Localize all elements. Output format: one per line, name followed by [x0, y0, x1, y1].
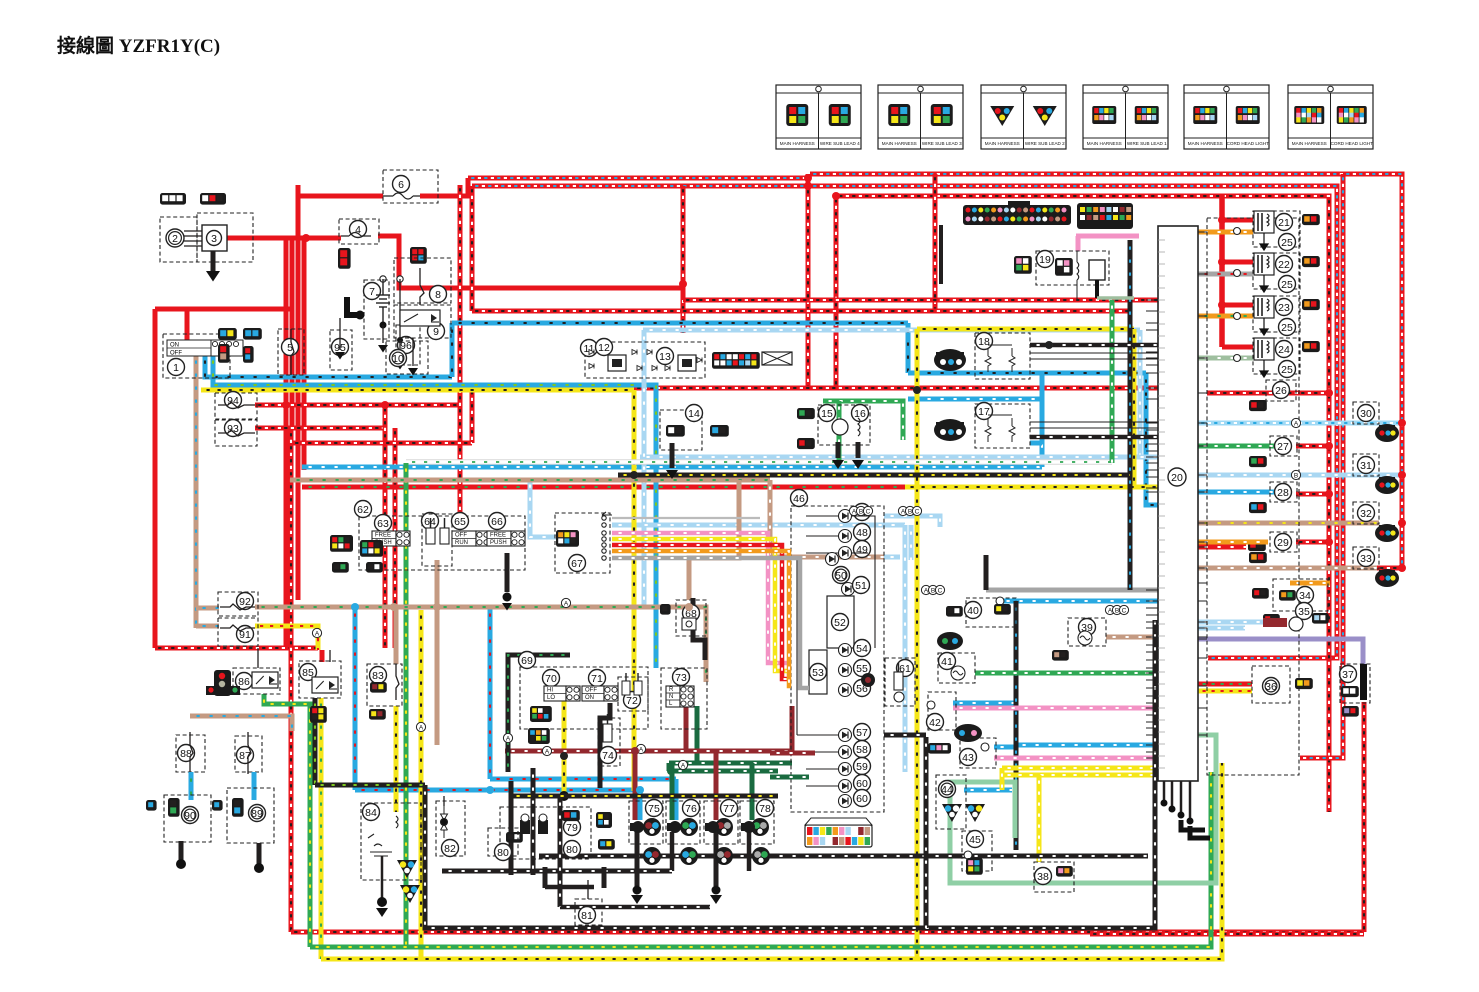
connector 14b [710, 425, 729, 437]
label 93 [225, 420, 242, 437]
wire red 93 H428 [255, 426, 385, 431]
svg-text:60: 60 [856, 778, 868, 790]
bullet 78 [741, 821, 755, 833]
label 25 [1279, 276, 1296, 293]
horn 84 [368, 816, 398, 856]
wire black 46 out [884, 733, 926, 738]
svg-text:41: 41 [941, 656, 953, 668]
wire red battery feed [226, 236, 306, 241]
wire gray row22 [1198, 272, 1253, 277]
wire row36 RG [1198, 682, 1252, 687]
wire switch 83 [396, 664, 399, 700]
connector 89L [212, 800, 223, 811]
plunger 61 [894, 672, 903, 690]
box 89 [227, 788, 274, 843]
wire red main top outer [810, 174, 1402, 570]
wire black H796 [511, 794, 778, 799]
wire yellow ecu775 [1002, 773, 1160, 778]
wire fuse 91 [220, 625, 255, 631]
label 91 [237, 626, 254, 643]
label 40 [965, 602, 982, 619]
wire yellow H390 trunk [201, 388, 634, 393]
wire black v1130 [1128, 240, 1133, 590]
connector 62a [330, 535, 353, 552]
label 47 [854, 504, 871, 521]
svg-text:58: 58 [856, 744, 868, 756]
connector 85 [310, 706, 327, 723]
wire red v304 [302, 238, 307, 470]
tri lamp 84a [397, 860, 417, 878]
label 87 [237, 747, 254, 764]
wire switch 5 [291, 329, 294, 375]
wire black v926 [924, 737, 929, 928]
wire red main top mid [472, 186, 1337, 658]
label 63 [375, 515, 392, 532]
node B [1291, 470, 1300, 479]
wire red row28r [1296, 492, 1329, 497]
svg-text:接線圖 YZFR1Y(C): 接線圖 YZFR1Y(C) [57, 34, 220, 57]
label 49 [854, 541, 871, 558]
svg-text:17: 17 [978, 406, 990, 418]
node A [1291, 418, 1300, 427]
box 72 [618, 677, 648, 711]
flasher lamp 75 [643, 818, 661, 836]
connector 90L [146, 800, 157, 811]
pin 67 0 [602, 516, 606, 520]
connector coil 24 [1302, 341, 1320, 352]
relay 86 [252, 672, 278, 688]
wire ecu bottom pin 0 [1163, 781, 1166, 800]
wire red rowtop r [1198, 545, 1246, 550]
label 25 [1279, 319, 1296, 336]
box 91 [218, 618, 258, 646]
wire bundle red curve [742, 545, 791, 679]
wire blue row28 [1198, 490, 1288, 495]
svg-text:A: A [545, 749, 550, 756]
connector 90 [168, 798, 180, 817]
svg-text:19: 19 [1039, 254, 1051, 266]
label 39 [1079, 619, 1096, 636]
label 77 [721, 800, 738, 817]
tri conn 44a [942, 804, 962, 822]
svg-text:C: C [915, 509, 920, 516]
box 33 [1353, 547, 1379, 569]
label 67 [569, 555, 586, 572]
wire red v836 down [834, 196, 839, 388]
box 46 [791, 506, 884, 812]
wire maroon v716 lamp [714, 751, 719, 820]
wire black H871 [442, 869, 672, 874]
wire red coil row2 [1222, 260, 1253, 265]
wire junction [1218, 258, 1226, 266]
svg-text:37: 37 [1342, 669, 1354, 681]
label 73 [673, 669, 690, 686]
wire junction [636, 786, 644, 794]
box 11-13 [585, 342, 705, 378]
svg-text:ON: ON [170, 343, 179, 349]
box 41 [938, 653, 975, 683]
wire red row29r [1296, 540, 1329, 545]
starter relay 9 [400, 310, 440, 326]
wire tan v437 [435, 607, 440, 745]
label 42 [927, 714, 944, 731]
svg-text:69: 69 [521, 655, 533, 667]
wire lblue elbow 527 [612, 523, 905, 528]
wire lblue H457 [640, 455, 1160, 460]
wire red box6 left [298, 194, 383, 199]
connector 37b [1342, 706, 1359, 717]
wire red 85 feed [320, 650, 325, 662]
label 37 [1340, 666, 1357, 683]
wire tan v196 [194, 354, 199, 628]
relay 12 [608, 355, 626, 371]
wire red row26 [1207, 391, 1329, 396]
node C [863, 506, 872, 515]
wire red bottom H932 [291, 930, 1364, 935]
wire blue H323 [452, 321, 908, 326]
label 55 [854, 660, 871, 677]
connector coil 23 [1302, 299, 1320, 310]
connector row547 [1248, 540, 1266, 551]
box 39 [1068, 618, 1106, 646]
wire lblue H330 [643, 328, 1140, 333]
wire tan 92 feed [196, 606, 219, 611]
connector 29 [1249, 552, 1267, 563]
label 90 [182, 807, 199, 824]
wire ecu bottom pin 1 [1171, 781, 1174, 806]
box 17 [975, 404, 1030, 448]
spark plug arrow 22 [1260, 275, 1268, 292]
bullet 75 [630, 821, 644, 833]
lamp rear 77b [715, 847, 733, 865]
connector 36 [1295, 678, 1313, 689]
lamp connector 32 [1375, 524, 1399, 542]
svg-text:16: 16 [854, 408, 866, 420]
wire blue H790 [355, 788, 640, 793]
wire black v511 [509, 781, 514, 875]
legend box WIRE SUB LEAD 4 [776, 85, 861, 149]
wire yellow v917 [915, 329, 920, 959]
svg-text:92: 92 [239, 596, 251, 608]
injector conn 17 [934, 419, 966, 441]
wire lblue row35 [1198, 620, 1263, 625]
wire ecu bottom pin 2 [1180, 781, 1183, 812]
wire tan row39 [1106, 635, 1160, 640]
node C [1119, 605, 1128, 614]
svg-text:26: 26 [1275, 385, 1287, 397]
diode 11-13 [647, 350, 652, 355]
box 27 [1270, 436, 1297, 456]
label 9 [428, 323, 445, 340]
wire WG H462 trunk [406, 459, 1112, 465]
ECU inner ticks [1158, 240, 1165, 768]
lamp connector 31 [1375, 476, 1399, 494]
label 31 [1358, 457, 1375, 474]
box 5 [278, 329, 304, 375]
svg-text:CORD HEAD LIGHT: CORD HEAD LIGHT [1227, 141, 1270, 146]
wire maroon v792 [790, 706, 795, 751]
connector 80a [596, 812, 612, 828]
svg-text:23: 23 [1278, 302, 1290, 314]
svg-text:8: 8 [435, 289, 441, 301]
ground battery [378, 345, 388, 353]
wire black 71 drop [600, 703, 610, 788]
wire switch 88 [190, 732, 193, 774]
svg-text:1: 1 [173, 362, 179, 374]
wire red main top inner [836, 196, 1329, 812]
svg-text:OFF: OFF [455, 533, 467, 539]
label 20 [1168, 468, 1186, 486]
ground 66 [502, 603, 512, 611]
wire junction [630, 471, 638, 479]
connector 1d [243, 346, 254, 363]
svg-text:24: 24 [1278, 344, 1290, 356]
plunger 72a [622, 681, 630, 695]
wire gray ecu 590 [986, 588, 1160, 593]
ecu pin dot 3 [1187, 818, 1194, 825]
label 23 [1276, 299, 1293, 316]
arrow 67 [602, 512, 612, 518]
ground 15 [832, 460, 844, 469]
box 28 [1270, 482, 1297, 502]
wire stator lines4 [184, 245, 202, 247]
wire junction [433, 603, 441, 611]
wire tan row32 [1198, 521, 1379, 526]
wire blue H779 [490, 777, 676, 782]
connector 38 [1056, 866, 1073, 877]
wire junction [486, 786, 494, 794]
svg-text:30: 30 [1360, 408, 1372, 420]
svg-text:62: 62 [357, 504, 369, 516]
black L 95 [347, 297, 365, 320]
label 24 [1276, 341, 1293, 358]
wire dkgreen v669 [667, 763, 672, 771]
wire junction [804, 182, 812, 190]
svg-text:79: 79 [566, 822, 578, 834]
label 17 [976, 403, 993, 420]
label 66 [489, 513, 506, 530]
box 18 [975, 333, 1030, 379]
label 50 [833, 567, 850, 584]
node A [849, 506, 858, 515]
spark plug arrow 21 [1260, 233, 1268, 250]
wire black H856 [539, 854, 1148, 859]
wire red row27r [1296, 444, 1329, 449]
wire yellow bottom H959 [321, 763, 1222, 959]
label 83 [370, 667, 387, 684]
wire red v291 bottom [289, 430, 294, 932]
wire tan 64 drop [435, 560, 440, 648]
ground lamp b [710, 895, 722, 904]
svg-text:20: 20 [1171, 472, 1183, 484]
diode 49b [826, 553, 839, 566]
label 26 [1273, 382, 1290, 399]
svg-text:MAIN HARNESS: MAIN HARNESS [1188, 141, 1223, 146]
wire black H887 [545, 885, 594, 890]
connector 79a [562, 810, 580, 821]
ground 95 [335, 352, 345, 360]
box 83 [367, 664, 402, 706]
connector 1a [218, 328, 237, 340]
svg-text:FREE: FREE [490, 533, 506, 539]
svg-text:31: 31 [1360, 460, 1372, 472]
ECU pin stubs [1146, 300, 1158, 758]
label 56 [854, 680, 871, 697]
plunger 64b [440, 518, 449, 544]
diode 11-13 [589, 350, 594, 355]
svg-text:R: R [669, 687, 674, 693]
plunger 72b [634, 681, 642, 695]
connector 46 bottom [805, 818, 872, 847]
wire green v310 [264, 694, 310, 947]
wire black v315 [313, 698, 318, 785]
wire junction [282, 401, 290, 409]
svg-text:N: N [669, 694, 673, 700]
node A [416, 722, 425, 731]
wire ladder wire 60 [806, 785, 838, 787]
pin 67 4 [602, 543, 606, 547]
wire green row27 [1198, 444, 1288, 449]
svg-text:PUSH: PUSH [490, 540, 507, 546]
wire lblue v530 [530, 478, 556, 537]
svg-text:RUN: RUN [455, 540, 468, 546]
svg-text:84: 84 [365, 807, 377, 819]
wire orange row29 [1198, 540, 1268, 545]
wire ladder wire 49 [806, 552, 838, 554]
diode 11-13 [652, 366, 657, 371]
label 86 [236, 673, 253, 690]
legend box WIRE SUB LEAD 2 [981, 85, 1066, 149]
label 2 [166, 229, 184, 247]
svg-text:18: 18 [978, 336, 990, 348]
box 96 [396, 325, 420, 365]
wire red v395 [393, 428, 398, 648]
wire junction [1325, 389, 1333, 397]
label 15 [819, 405, 836, 422]
black bar 37 [1360, 664, 1367, 700]
box 62 [359, 516, 525, 570]
svg-text:29: 29 [1277, 537, 1289, 549]
wire blue v1146 [1146, 373, 1158, 505]
wire 82 feed [443, 796, 445, 806]
label 70 [543, 670, 560, 687]
svg-text:HI: HI [547, 688, 553, 694]
ignition coil 23 [1254, 296, 1274, 318]
wire ladder wire 57 [797, 734, 838, 736]
connector strip A [963, 201, 1071, 225]
node A [921, 585, 930, 594]
node A [1105, 605, 1114, 614]
svg-text:35: 35 [1298, 606, 1310, 618]
box 78 [740, 801, 774, 844]
wire green bottom H947 [310, 772, 1211, 947]
svg-text:89: 89 [251, 808, 263, 820]
svg-text:46: 46 [793, 493, 805, 505]
svg-text:81: 81 [581, 910, 593, 922]
wire red coil row4 [1222, 345, 1253, 350]
bullet 77 [705, 821, 719, 833]
svg-text:78: 78 [759, 803, 771, 815]
connector 43L [928, 743, 951, 754]
box 82 [436, 801, 465, 856]
lamp connector 30 [1375, 424, 1399, 442]
wire black 89 drop [257, 843, 262, 866]
connector 39b [1052, 650, 1069, 661]
wire ladder wire 47 [806, 515, 838, 517]
wire blue sw pairA [205, 354, 452, 377]
box 44 [936, 775, 966, 829]
svg-text:B: B [1115, 608, 1119, 615]
ground 89 [254, 863, 264, 873]
wire ladder r [852, 516, 875, 648]
connector 15a [797, 408, 815, 419]
label 48 [854, 524, 871, 541]
connector 34a [1252, 588, 1269, 599]
ladder rect 52 [827, 596, 854, 648]
lamp rear 75b [643, 847, 661, 865]
node 42 [927, 701, 935, 709]
wire pgreen ecu loop [950, 735, 1216, 883]
ecu pin elbow [1181, 820, 1205, 830]
label 43 [960, 749, 977, 766]
wire pink 19 stub [1076, 234, 1139, 239]
diode 11-13 [665, 366, 670, 371]
label 11 [581, 340, 598, 357]
wire starter line [399, 279, 401, 340]
wire white 18b [1030, 358, 1158, 360]
connector 1b [243, 328, 262, 340]
diode 60 [839, 780, 852, 793]
svg-text:25: 25 [1281, 237, 1293, 249]
svg-text:45: 45 [969, 834, 981, 846]
diode 54 [839, 644, 852, 657]
label 80 [564, 841, 581, 858]
label 1 [168, 359, 185, 376]
svg-text:76: 76 [685, 803, 697, 815]
wire junction [1398, 564, 1406, 572]
label 76 [683, 800, 700, 817]
label 80L [495, 844, 512, 861]
svg-text:33: 33 [1360, 553, 1372, 565]
wire maroon 73 drop [684, 706, 689, 751]
svg-text:B: B [908, 509, 912, 516]
wire orange row21 [1198, 230, 1253, 235]
svg-text:MAIN HARNESS: MAIN HARNESS [985, 141, 1020, 146]
connector 67a [556, 530, 579, 547]
label 27 [1275, 438, 1292, 455]
wire black bottom U [425, 620, 1155, 928]
connector 14a [666, 425, 685, 437]
svg-text:32: 32 [1360, 508, 1372, 520]
plug 79a [520, 814, 530, 834]
wire bundle #f5e618 [612, 537, 742, 542]
label 3 [207, 231, 222, 246]
label 46 [791, 490, 808, 507]
wire tan 91 feed [196, 624, 219, 629]
connector 68 [660, 604, 671, 615]
wire starter tail [399, 340, 401, 360]
wire red coil row1 [1222, 218, 1253, 223]
diode 56 [839, 684, 852, 697]
injector conn 18 [934, 349, 966, 371]
wire blue 17 link [1030, 441, 1042, 446]
node battery [380, 322, 387, 329]
svg-text:38: 38 [1037, 871, 1049, 883]
connector 70a [530, 706, 552, 722]
spark plug arrow 23 [1260, 318, 1268, 335]
svg-text:15: 15 [821, 408, 833, 420]
wire junction [832, 192, 840, 200]
